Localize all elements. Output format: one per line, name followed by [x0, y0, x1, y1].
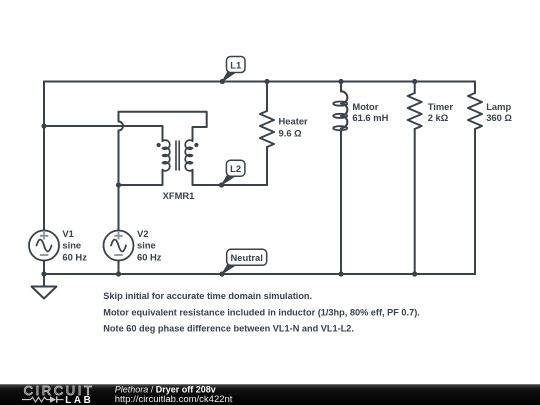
- svg-text:2 kΩ: 2 kΩ: [428, 112, 449, 123]
- svg-text:60 Hz: 60 Hz: [62, 251, 87, 262]
- wire transformer top box with hop over: [119, 112, 207, 185]
- wire timer bottom lead: [414, 129, 416, 274]
- svg-text:360 Ω: 360 Ω: [486, 112, 512, 123]
- svg-text:Lamp: Lamp: [486, 101, 511, 112]
- svg-text:Neutral: Neutral: [231, 252, 263, 263]
- wire lamp bottom lead: [474, 129, 476, 274]
- svg-text:Note 60 deg phase difference b: Note 60 deg phase difference between VL1…: [103, 324, 354, 334]
- junction heater top: [264, 79, 269, 84]
- ground symbol: [32, 287, 57, 299]
- wire motor bottom lead: [340, 131, 342, 274]
- junction motor top: [338, 79, 343, 84]
- junction V2 top branch: [116, 182, 121, 187]
- svg-text:Motor equivalent resistance in: Motor equivalent resistance included in …: [103, 307, 420, 317]
- junction V2 bottom: [116, 271, 121, 276]
- voltage source V2 circle: [104, 231, 134, 261]
- wire lamp top lead: [474, 82, 476, 94]
- svg-text:V1: V1: [62, 228, 73, 239]
- wire ground stem: [43, 274, 45, 287]
- transformer XFMR1 core: [176, 141, 179, 170]
- wire neutral bus: [44, 273, 475, 275]
- footer bar: [0, 384, 540, 405]
- svg-text:Skip initial for accurate time: Skip initial for accurate time domain si…: [103, 291, 312, 301]
- node flag L1: [220, 57, 245, 85]
- svg-text:Motor: Motor: [352, 101, 378, 112]
- svg-text:Timer: Timer: [428, 101, 454, 112]
- svg-text:LAB: LAB: [65, 395, 93, 405]
- node flag Neutral: [219, 249, 266, 276]
- node flag L2: [219, 160, 245, 187]
- junction motor bottom: [338, 271, 343, 276]
- junction ground neutral: [41, 271, 46, 276]
- wire timer top lead: [414, 82, 416, 94]
- resistor Lamp: [468, 93, 482, 129]
- junction timer top: [412, 79, 417, 84]
- junction timer bottom: [412, 271, 417, 276]
- svg-text:L2: L2: [230, 163, 241, 174]
- transformer XFMR1 primary winding: [163, 140, 170, 171]
- wire top L1 bus: [44, 81, 475, 83]
- wire primary bottom to junction: [119, 170, 163, 185]
- wire V1 plus to transformer primary top: [44, 126, 163, 141]
- wire L2 net secondary bottom to heater: [193, 170, 268, 185]
- junction V1 top branch: [41, 123, 46, 128]
- svg-text:Heater: Heater: [279, 115, 309, 126]
- transformer XFMR1 secondary winding: [185, 140, 192, 171]
- V1 minus sign: [40, 254, 49, 256]
- wire heater top lead: [266, 82, 268, 112]
- wire V2 bottom lead: [118, 261, 120, 275]
- resistor Timer: [408, 93, 422, 129]
- svg-text:L1: L1: [230, 59, 241, 70]
- CircuitLab logo and footer text: [0, 384, 540, 405]
- voltage source V2 sine: [111, 240, 126, 252]
- V2 plus sign: [114, 232, 122, 240]
- wire V1 bottom lead: [43, 261, 45, 275]
- wire V2 top lead: [118, 185, 120, 231]
- wire heater bottom lead: [266, 147, 268, 185]
- inductor Motor: [341, 91, 347, 131]
- voltage source V1 sine: [37, 240, 52, 252]
- svg-text:V2: V2: [137, 228, 148, 239]
- resistor Heater: [260, 111, 274, 147]
- voltage source V1 circle: [29, 231, 59, 261]
- svg-text:61.6 mH: 61.6 mH: [352, 112, 388, 123]
- svg-text:http://circuitlab.com/ck422nt: http://circuitlab.com/ck422nt: [115, 394, 233, 405]
- transformer phase dot secondary: [194, 143, 198, 147]
- V2 minus sign: [114, 254, 123, 256]
- transformer phase dot primary: [157, 143, 161, 147]
- wire left vertical V1 top lead: [43, 82, 45, 231]
- svg-text:XFMR1: XFMR1: [163, 190, 195, 201]
- svg-text:sine: sine: [62, 240, 81, 251]
- wire motor top lead: [340, 82, 342, 92]
- svg-text:9.6 Ω: 9.6 Ω: [279, 128, 303, 139]
- svg-text:60 Hz: 60 Hz: [137, 251, 162, 262]
- svg-text:Plethora / Dryer off 208v: Plethora / Dryer off 208v: [115, 384, 216, 394]
- V1 plus sign: [40, 232, 48, 240]
- svg-text:sine: sine: [137, 240, 156, 251]
